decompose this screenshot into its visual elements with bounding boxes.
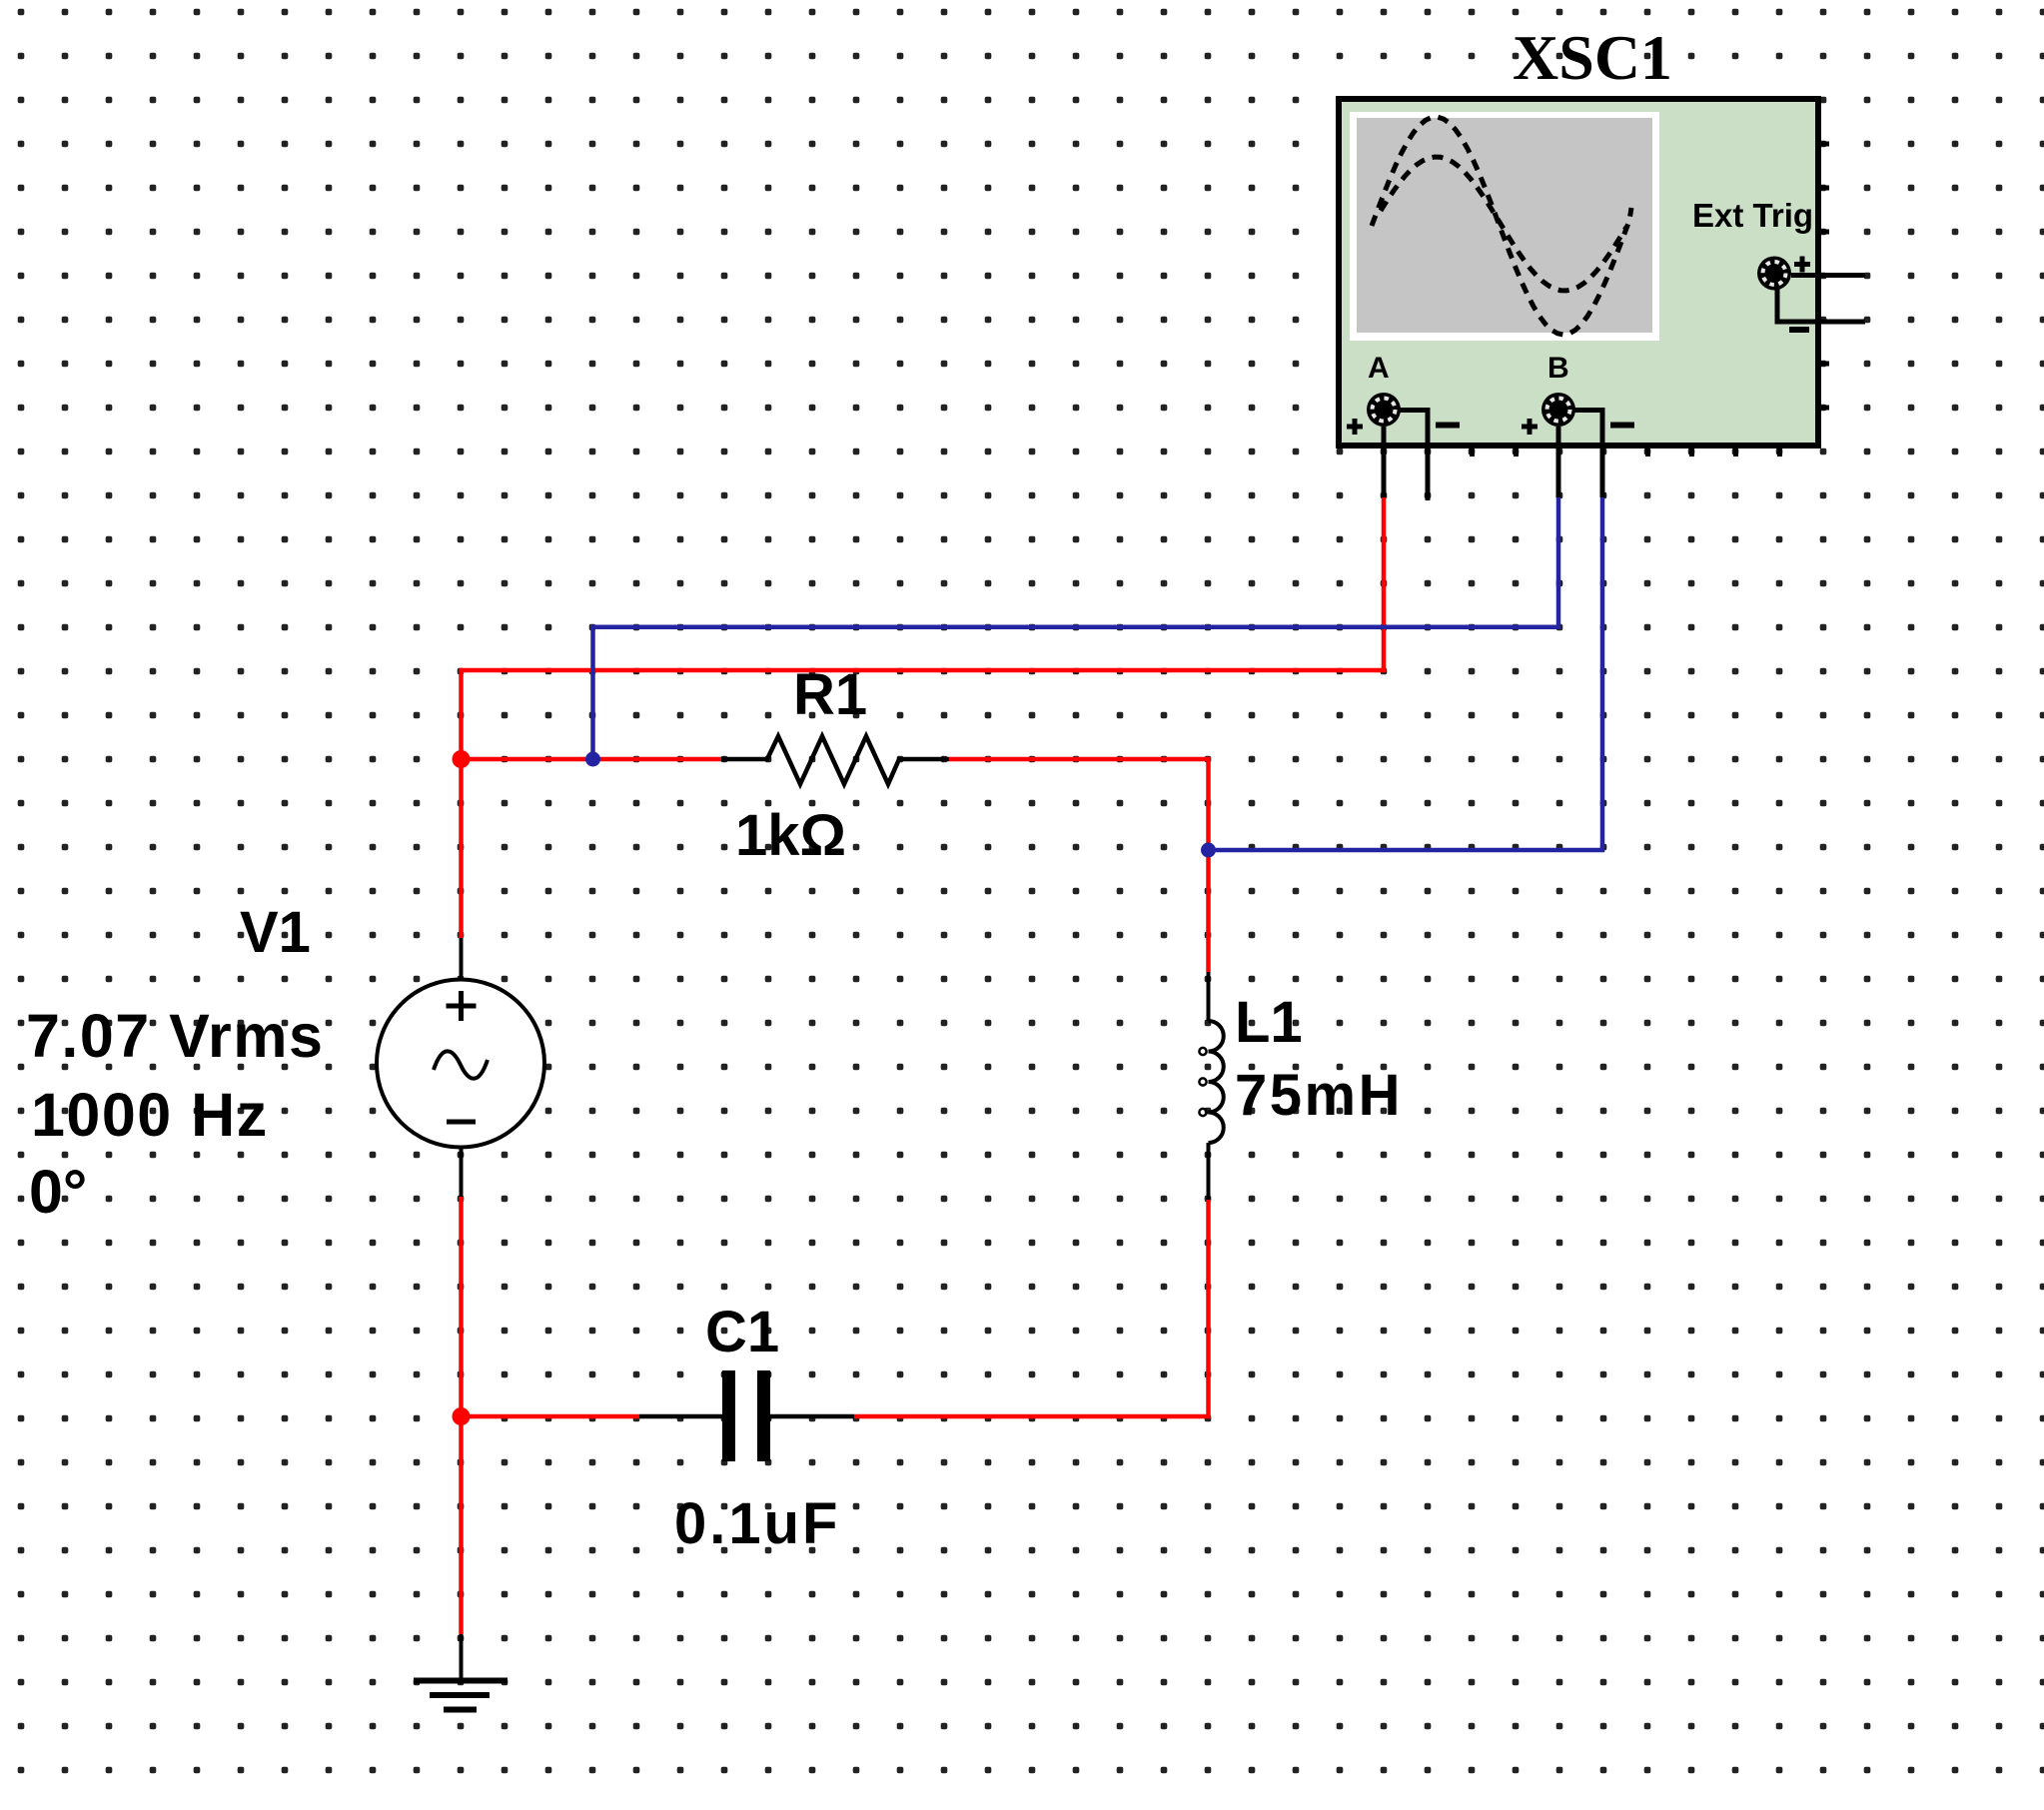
svg-text:B: B	[1547, 352, 1569, 385]
svg-text:L1: L1	[1235, 990, 1303, 1055]
svg-text:V1: V1	[240, 900, 311, 965]
svg-text:XSC1: XSC1	[1513, 22, 1672, 93]
capacitor C1	[639, 1370, 854, 1461]
junction node scope B- / L1 top (blue)	[1201, 843, 1216, 858]
channel A internal pin wire	[1399, 411, 1428, 501]
Ext Trig + marker	[1794, 257, 1810, 273]
Ext Trig pin wires	[1777, 276, 1865, 323]
wire ground node down to ground (red)	[459, 1416, 464, 1634]
svg-text:0.1uF: 0.1uF	[674, 1491, 841, 1556]
channel B + marker	[1522, 419, 1537, 435]
oscilloscope screen waveform trace 2	[1381, 157, 1626, 291]
svg-text:1kΩ: 1kΩ	[735, 803, 846, 868]
V1 + marker	[447, 991, 477, 1021]
wire scope A+ to V1+ (red)	[462, 497, 1385, 938]
svg-text:R1: R1	[793, 662, 867, 727]
Ext Trig - marker	[1789, 327, 1809, 333]
wire scope B+ down-left to R1 input node (blue)	[593, 497, 1559, 759]
channel A - marker	[1436, 423, 1460, 429]
channel B terminal	[1541, 393, 1575, 427]
junction node scope B+ / R1 left (blue)	[585, 752, 600, 767]
wire V1- to ground node (red)	[459, 1197, 464, 1416]
svg-text:1000 Hz: 1000 Hz	[31, 1081, 269, 1149]
V1 - marker	[447, 1120, 476, 1125]
oscilloscope U1 XSC1 body	[1339, 99, 1829, 456]
svg-text:75mH: 75mH	[1235, 1063, 1403, 1128]
wire C1 left to ground node (red)	[462, 1414, 640, 1419]
oscilloscope screen waveform trace 1	[1372, 117, 1631, 335]
channel A + pin stub (black)	[1382, 427, 1387, 497]
junction node V1+ / R1 (red)	[453, 750, 471, 768]
channel A + marker	[1347, 419, 1363, 435]
V1 sine marker	[434, 1051, 488, 1078]
Ext Trig terminal	[1757, 257, 1791, 291]
inductor L1	[1199, 972, 1223, 1200]
wire V1+ node to R1 left (red)	[462, 757, 722, 762]
wire R1 right to L1 top (red)	[949, 759, 1209, 972]
ground	[414, 1634, 508, 1710]
resistor R1	[721, 736, 949, 784]
wire L1 bottom to C1 right (red)	[854, 1200, 1209, 1416]
junction node V1- / C1 / ground (red)	[453, 1407, 471, 1425]
svg-text:A: A	[1368, 352, 1390, 385]
svg-text:7.07 Vrms: 7.07 Vrms	[26, 1002, 324, 1070]
channel B + pin stub (black)	[1556, 427, 1561, 497]
voltage source V1	[377, 938, 544, 1197]
channel B - marker	[1610, 423, 1634, 429]
svg-text:0°: 0°	[29, 1158, 87, 1226]
channel A terminal	[1367, 393, 1401, 427]
oscilloscope screen	[1350, 112, 1659, 341]
channel B internal pin wire	[1573, 411, 1602, 498]
svg-text:C1: C1	[705, 1300, 779, 1364]
svg-text:Ext Trig: Ext Trig	[1692, 197, 1813, 234]
wire scope B- down to L1 top node (blue)	[1209, 497, 1603, 850]
